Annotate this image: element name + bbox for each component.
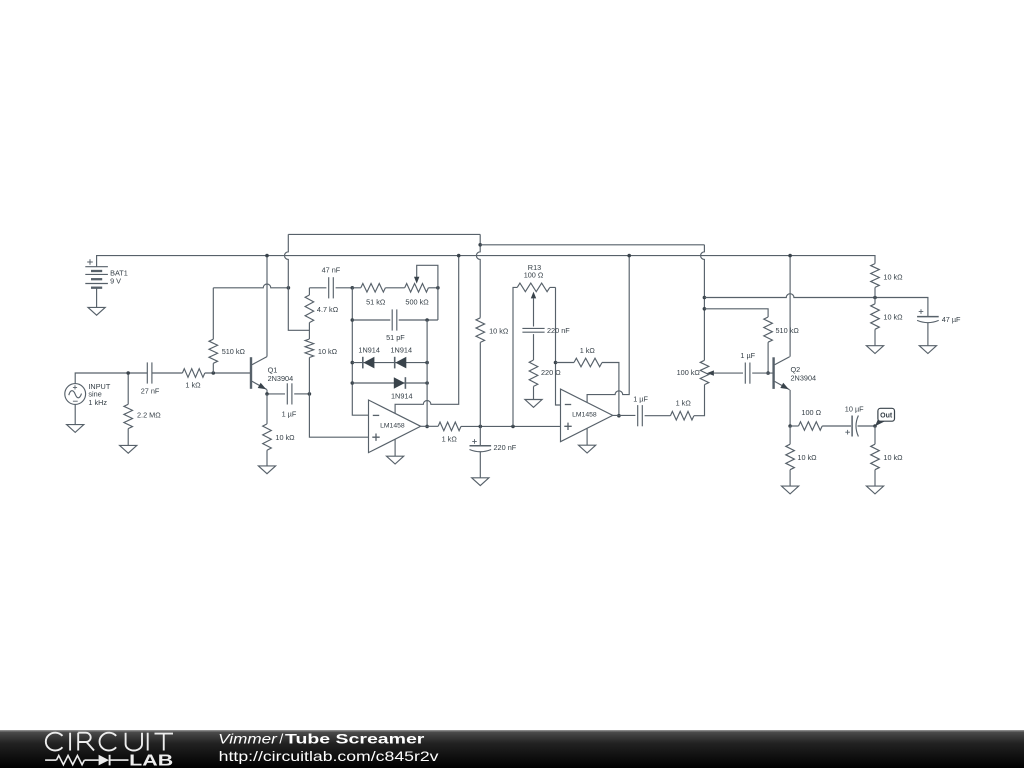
svg-text:510 kΩ: 510 kΩ (776, 326, 800, 335)
svg-text:LM1458: LM1458 (380, 423, 405, 430)
svg-text:1 µF: 1 µF (282, 409, 297, 418)
svg-text:220 nF: 220 nF (547, 326, 570, 335)
svg-text:2.2 MΩ: 2.2 MΩ (137, 410, 161, 419)
svg-text:http://circuitlab.com/c845r2v: http://circuitlab.com/c845r2v (219, 748, 439, 764)
svg-text:47 nF: 47 nF (322, 266, 341, 275)
svg-text:9 V: 9 V (110, 276, 121, 285)
svg-text:10 kΩ: 10 kΩ (883, 453, 903, 462)
svg-text:1N914: 1N914 (391, 392, 413, 401)
svg-text:510 kΩ: 510 kΩ (222, 347, 246, 356)
svg-text:1 kΩ: 1 kΩ (676, 399, 692, 408)
svg-text:100 Ω: 100 Ω (524, 271, 544, 280)
svg-text:4.7 kΩ: 4.7 kΩ (317, 305, 339, 314)
svg-text:51 pF: 51 pF (386, 333, 405, 342)
svg-text:47 µF: 47 µF (942, 315, 961, 324)
svg-text:10 kΩ: 10 kΩ (275, 433, 295, 442)
svg-text:1 µF: 1 µF (633, 395, 648, 404)
svg-text:1N914: 1N914 (391, 345, 413, 354)
svg-text:500 kΩ: 500 kΩ (405, 298, 429, 307)
svg-text:2N3904: 2N3904 (791, 373, 817, 382)
svg-text:1 kHz: 1 kHz (88, 398, 107, 407)
svg-text:10 µF: 10 µF (845, 404, 864, 413)
svg-text:LM1458: LM1458 (572, 412, 597, 419)
svg-text:1 kΩ: 1 kΩ (185, 381, 201, 390)
svg-text:10 kΩ: 10 kΩ (797, 453, 817, 462)
svg-text:100 kΩ: 100 kΩ (677, 368, 701, 377)
svg-text:10 kΩ: 10 kΩ (883, 313, 903, 322)
svg-text:100 Ω: 100 Ω (801, 408, 821, 417)
svg-text:10 kΩ: 10 kΩ (318, 347, 338, 356)
svg-text:10 kΩ: 10 kΩ (489, 327, 509, 336)
svg-text:1 kΩ: 1 kΩ (580, 346, 596, 355)
svg-text:220 nF: 220 nF (494, 443, 517, 452)
svg-text:51 kΩ: 51 kΩ (366, 298, 386, 307)
svg-text:10 kΩ: 10 kΩ (883, 272, 903, 281)
svg-text:2N3904: 2N3904 (268, 374, 294, 383)
svg-text:Out: Out (880, 413, 893, 420)
svg-text:1N914: 1N914 (358, 345, 380, 354)
svg-text:1 µF: 1 µF (740, 351, 755, 360)
svg-text:1 kΩ: 1 kΩ (442, 434, 458, 443)
svg-text:220 Ω: 220 Ω (541, 368, 561, 377)
svg-text:LAB: LAB (129, 752, 173, 768)
svg-text:Vimmer/Tube Screamer: Vimmer/Tube Screamer (218, 730, 425, 746)
svg-text:27 nF: 27 nF (141, 386, 160, 395)
